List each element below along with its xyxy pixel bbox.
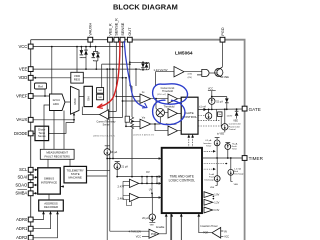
svg-text:1.9V: 1.9V xyxy=(214,194,219,197)
AND gate PGD xyxy=(188,69,209,78)
current source 75uA fault timer xyxy=(225,142,238,158)
pin SMBA xyxy=(15,190,33,196)
svg-text:Timer: Timer xyxy=(232,148,238,151)
svg-text:20 µA: 20 µA xyxy=(142,217,149,220)
pin GATE right xyxy=(242,106,261,112)
svg-text:LM5064: LM5064 xyxy=(175,51,193,57)
current source 1.5mA end discharge xyxy=(228,158,244,186)
pin VDD xyxy=(18,75,33,80)
wire 18uA rail xyxy=(107,158,162,160)
wire ADR1 xyxy=(33,211,51,229)
svg-text:21 µA: 21 µA xyxy=(121,165,128,168)
svg-text:(UV): (UV) xyxy=(188,77,193,79)
svg-text:SENSE: SENSE xyxy=(121,22,125,35)
svg-text:ADR0: ADR0 xyxy=(16,217,28,222)
svg-text:VEE: VEE xyxy=(224,76,229,79)
svg-text:Ref: Ref xyxy=(38,84,43,88)
svg-text:Power Limit: Power Limit xyxy=(229,125,240,128)
current source 2mA fault discharge xyxy=(204,158,220,189)
svg-text:(1.8/3.7) X (8/3.7) mV: (1.8/3.7) X (8/3.7) mV xyxy=(133,135,155,137)
block TIME AND GATE LOGIC CONTROL xyxy=(162,148,202,213)
blue annotation loop upper xyxy=(153,84,188,104)
svg-text:Threshold: Threshold xyxy=(164,106,175,109)
wire clamp mid horizontal xyxy=(102,64,130,88)
block Diode Temp Sense xyxy=(35,126,49,140)
wire SENSE_K vertical xyxy=(115,42,117,111)
svg-text:Threshold: Threshold xyxy=(162,90,173,93)
svg-text:TIMER: TIMER xyxy=(249,156,264,161)
svg-text:Control: Control xyxy=(229,128,236,131)
pin VREF xyxy=(16,93,33,98)
node dots top rails xyxy=(76,46,97,70)
wire telemetry amp inputs xyxy=(109,112,123,118)
wire VDD to regulator xyxy=(34,77,36,79)
pin VCC xyxy=(18,44,33,49)
wire PGD comparator input xyxy=(155,72,174,86)
wire UV line xyxy=(139,183,162,197)
block VDD REG xyxy=(71,72,84,83)
wire POR enable xyxy=(110,213,182,240)
svg-text:VEE: VEE xyxy=(150,224,155,226)
wire ADR0 xyxy=(33,211,44,220)
current source gate sink xyxy=(205,109,211,119)
svg-text:to VEE: to VEE xyxy=(217,133,225,136)
comparator 0.3V xyxy=(204,207,220,213)
pin TIMER right xyxy=(242,156,263,161)
svg-text:VCC: VCC xyxy=(136,235,141,238)
svg-text:DECODER: DECODER xyxy=(44,205,58,209)
gain resistor boxlets xyxy=(97,88,104,100)
op-amp current telemetry sense xyxy=(97,110,117,127)
svg-text:VEE: VEE xyxy=(234,184,239,186)
svg-text:Current Limit: Current Limit xyxy=(229,123,241,126)
pin SENSE top xyxy=(120,22,125,42)
wire VEE_K vertical xyxy=(109,42,111,231)
svg-text:ADR1: ADR1 xyxy=(16,226,28,231)
block GATE CONTROL xyxy=(181,97,198,134)
svg-text:SDAI: SDAI xyxy=(18,175,28,180)
transistor Q1 PGD xyxy=(215,67,229,79)
diode gate top xyxy=(212,97,229,110)
block Ref xyxy=(35,83,47,89)
current source 21uA xyxy=(114,162,128,177)
block ADDRESS DECODER xyxy=(39,200,64,211)
svg-text:VCC: VCC xyxy=(224,236,229,238)
wire AND to transistor base xyxy=(209,72,217,74)
current source 4.5uA insertion timer xyxy=(203,138,220,158)
svg-text:POR: POR xyxy=(203,232,208,235)
wire DIODE to temp sense and MUX xyxy=(33,120,74,134)
pin SENSE_K top xyxy=(114,18,119,42)
red annotation arrowhead xyxy=(97,104,102,109)
wire mid vertical x107 xyxy=(106,69,108,240)
svg-text:SDAO: SDAO xyxy=(15,182,28,187)
svg-text:VEE: VEE xyxy=(210,187,215,189)
wire VAUX to MUX xyxy=(33,113,74,120)
svg-text:ADC: ADC xyxy=(53,102,60,106)
svg-text:SMBA: SMBA xyxy=(15,191,27,196)
node dots OV line xyxy=(116,176,158,178)
dashed verticals gate control to logic xyxy=(187,134,194,148)
package border thick gray right bus xyxy=(130,40,245,240)
svg-text:BLOCK DIAGRAM: BLOCK DIAGRAM xyxy=(113,3,178,12)
svg-text:DIODE: DIODE xyxy=(14,131,27,136)
package border top edge xyxy=(31,39,131,41)
wire smbus to telemetry arrow xyxy=(60,185,64,187)
comparator circuit breaker xyxy=(166,123,178,135)
svg-text:4.7V/8.53V: 4.7V/8.53V xyxy=(129,230,142,233)
svg-text:VAUX: VAUX xyxy=(16,117,27,122)
node dots UV line xyxy=(141,183,158,195)
pin SCL xyxy=(19,167,33,172)
svg-text:S/H: S/H xyxy=(86,96,90,101)
block TELEMETRY STATE MACHINE xyxy=(64,166,87,183)
comparator current limit xyxy=(157,87,178,103)
svg-text:Sense: Sense xyxy=(103,123,110,126)
svg-text:2m: 2m xyxy=(218,114,221,116)
wire ADR2 xyxy=(33,211,58,238)
comparator 1.9V xyxy=(204,192,220,198)
svg-text:50R: 50R xyxy=(98,90,102,92)
dashed control lines to timer sources xyxy=(202,150,228,170)
svg-text:Enable: Enable xyxy=(156,225,165,229)
wire IIN amp to comparators and multiplier xyxy=(151,99,168,131)
svg-text:OUT: OUT xyxy=(128,27,132,36)
pin VAUXH top xyxy=(88,23,93,43)
block SMBUS INTERFACE xyxy=(38,168,61,194)
package border left edge xyxy=(30,40,32,240)
wire gate line xyxy=(198,108,242,111)
svg-text:VEE: VEE xyxy=(233,120,238,123)
pin VEE_K top xyxy=(108,23,113,42)
blue annotation line from SENSE xyxy=(124,42,144,107)
wire OUT vertical xyxy=(130,42,132,117)
label 1 mA arrow xyxy=(199,106,206,111)
pin PGD top xyxy=(220,27,225,42)
diode D4 clamp xyxy=(93,52,99,70)
arrowheads into logic block left edge xyxy=(159,157,162,199)
current source 20uA xyxy=(142,193,155,226)
comparator POR enable xyxy=(129,225,165,238)
svg-text:VEE: VEE xyxy=(19,67,28,72)
current source current/power limit control xyxy=(217,109,241,135)
wire VEE rail y69.1 xyxy=(33,68,140,70)
node dots mid xyxy=(106,68,127,102)
wire smbus to address decoder xyxy=(48,194,50,200)
svg-text:INTERFACE: INTERFACE xyxy=(41,180,57,184)
wire timer line xyxy=(202,157,242,159)
pin OUT top xyxy=(127,27,132,42)
small box 2mA xyxy=(218,112,222,117)
comparator POR insertion timer xyxy=(201,224,230,238)
comparator 1.2V xyxy=(204,199,220,205)
comparator PGD 1.24V xyxy=(154,67,185,77)
svg-text:VDD: VDD xyxy=(18,75,27,80)
svg-text:POR: POR xyxy=(151,233,156,236)
multiplier X xyxy=(156,109,164,117)
node junction dots 18uA rail xyxy=(106,158,114,160)
node junction dots amp outputs xyxy=(154,98,157,125)
svg-text:1.2V: 1.2V xyxy=(214,201,219,204)
svg-text:Insertion: Insertion xyxy=(203,142,212,145)
diode D1 clamp xyxy=(80,47,84,58)
svg-text:0.3V: 0.3V xyxy=(214,209,219,212)
diode D5 D6 clamp pair near OUT xyxy=(129,61,149,70)
svg-text:1.5 mA: 1.5 mA xyxy=(234,168,241,171)
dashed control lines gate block xyxy=(198,116,221,127)
svg-text:Fault: Fault xyxy=(232,145,237,148)
svg-text:VEE_K: VEE_K xyxy=(108,23,112,36)
svg-text:LOGIC CONTROL: LOGIC CONTROL xyxy=(169,179,196,183)
svg-text:VAUXH: VAUXH xyxy=(89,23,93,36)
wire OV line xyxy=(117,176,162,178)
zener 12.8V to VEE xyxy=(227,109,239,122)
wire ADC to fault registers xyxy=(44,105,64,149)
wire OV UV stubs xyxy=(142,177,157,198)
wire SENSE vertical xyxy=(122,42,124,117)
wire branch x136 down xyxy=(135,69,137,86)
svg-text:VREF: VREF xyxy=(16,93,28,98)
wire registers to smbus and telemetry xyxy=(48,159,70,168)
svg-text:75 µA: 75 µA xyxy=(232,142,238,145)
svg-text:±1 mA: ±1 mA xyxy=(199,106,206,109)
op-amp VIN xyxy=(140,117,151,129)
wire logic block bottom stubs xyxy=(172,213,182,240)
wire VCC rail y45.3 xyxy=(33,46,123,48)
wire VIN amp inputs xyxy=(126,122,140,127)
wire comparators to gate control xyxy=(178,99,182,131)
comparator power limit xyxy=(164,106,178,118)
wire mid vertical x126 xyxy=(125,78,127,127)
pin VAUX xyxy=(16,117,33,122)
wire SDAI arrow xyxy=(33,176,38,179)
wire VREF rail xyxy=(33,47,52,96)
pin SDAI xyxy=(18,175,34,180)
svg-text:50R: 50R xyxy=(98,97,102,99)
pin ADR2 xyxy=(16,235,33,240)
svg-text:Fault: Fault xyxy=(209,176,214,179)
svg-text:Sense: Sense xyxy=(38,134,46,138)
current source 52uA xyxy=(208,88,223,110)
svg-text:Timer: Timer xyxy=(206,144,212,147)
svg-text:SCL: SCL xyxy=(19,167,28,172)
wire telemetry right xyxy=(87,170,110,176)
wire VAUXH stem xyxy=(89,42,91,46)
svg-text:8V: 8V xyxy=(224,231,227,233)
wire SMBA arrow xyxy=(33,192,38,195)
node dots timer line xyxy=(216,157,232,159)
pin VEE xyxy=(19,67,33,72)
wire mid vertical x113 xyxy=(112,69,114,158)
node dots comparator refs xyxy=(213,196,215,200)
wire S/H to MUX to ADC xyxy=(65,96,84,102)
wire SCL arrow xyxy=(33,169,38,172)
wire telemetry amp to S/H xyxy=(82,107,99,115)
svg-text:OV: OV xyxy=(146,171,150,174)
wire sense to IIN amp xyxy=(116,96,140,101)
MUX trapezoid xyxy=(71,86,80,114)
node junction dots VIN inputs xyxy=(125,121,133,127)
wire SDAO arrow xyxy=(33,184,38,187)
svg-text:52 µA: 52 µA xyxy=(216,100,223,103)
comparator 2.47V xyxy=(118,179,139,188)
resistor divider xyxy=(125,116,134,176)
svg-text:ADR2: ADR2 xyxy=(16,235,28,240)
svg-text:4.5 µA: 4.5 µA xyxy=(205,139,212,142)
svg-text:(OV): (OV) xyxy=(188,74,193,76)
comparator 2.46V xyxy=(118,193,139,201)
svg-text:12.8V: 12.8V xyxy=(227,116,233,118)
svg-text:FAULT REGISTERS: FAULT REGISTERS xyxy=(45,154,71,158)
svg-text:(26/50 mV) X (1.8/3.7): (26/50 mV) X (1.8/3.7) xyxy=(93,136,115,138)
pin SDAO xyxy=(15,182,33,187)
wire comparator to AND xyxy=(184,72,202,75)
wire right column verticals xyxy=(217,110,222,127)
wire PGD collector xyxy=(222,42,224,67)
block 12 bit ADC xyxy=(50,94,66,111)
svg-text:2.46v: 2.46v xyxy=(118,197,125,201)
blue annotation arrowhead xyxy=(142,103,147,108)
wire POR insertion xyxy=(199,213,224,236)
svg-text:REG: REG xyxy=(74,78,81,82)
red annotation line from SENSE_K xyxy=(100,42,120,107)
svg-text:GATE: GATE xyxy=(249,107,261,112)
wire comparator inputs bottom xyxy=(123,181,132,205)
svg-text:VCC: VCC xyxy=(208,88,213,91)
pin DIODE xyxy=(14,131,33,136)
svg-text:(8/50 mV): (8/50 mV) xyxy=(157,94,166,96)
node dots gate line xyxy=(208,96,238,111)
diode D2 clamp xyxy=(80,47,88,70)
svg-text:VCC: VCC xyxy=(18,44,27,49)
current source 18uA xyxy=(104,146,118,159)
svg-text:MUX: MUX xyxy=(73,98,77,104)
block S/H xyxy=(84,86,92,106)
svg-text:MACHINE: MACHINE xyxy=(69,176,82,180)
svg-text:2 mA: 2 mA xyxy=(209,173,214,176)
svg-text:Insertion Timer: Insertion Timer xyxy=(201,224,218,228)
blue annotation loop lower xyxy=(153,100,185,124)
svg-text:PGD: PGD xyxy=(221,27,225,35)
pin ADR1 xyxy=(16,226,33,231)
svg-text:Discharge: Discharge xyxy=(204,178,214,181)
svg-text:SENSE_K: SENSE_K xyxy=(115,18,119,36)
svg-text:18 µA: 18 µA xyxy=(111,151,118,154)
block MEASUREMENT FAULT REGISTERS xyxy=(40,149,74,159)
diode D3 clamp xyxy=(92,47,98,61)
pin ADR0 xyxy=(16,217,33,222)
op-amp IIN xyxy=(140,91,151,103)
svg-text:Discharge: Discharge xyxy=(234,173,244,176)
